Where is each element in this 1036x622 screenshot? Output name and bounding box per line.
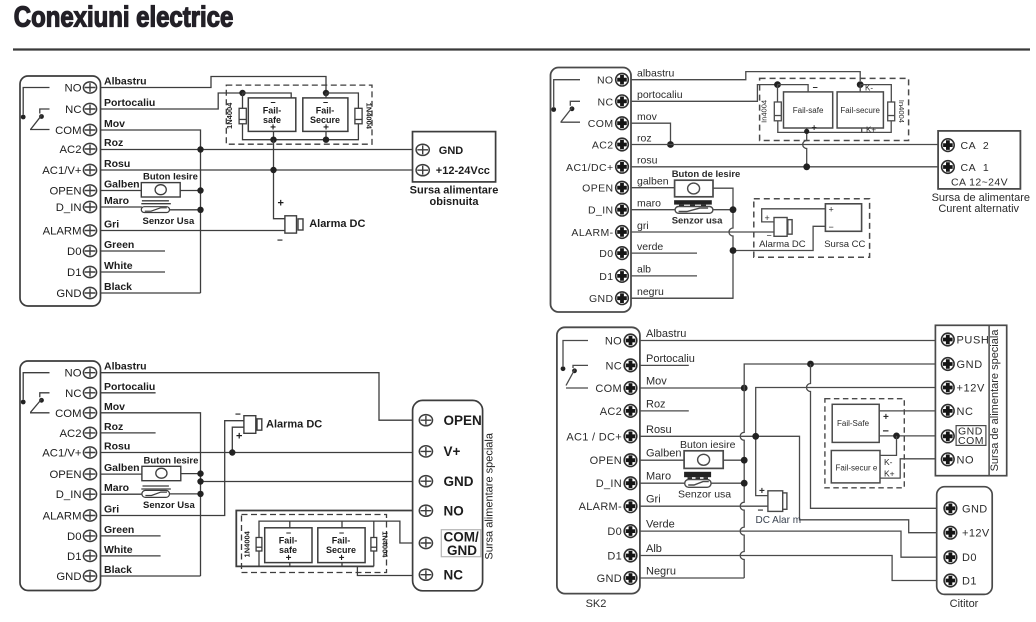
diode D5 In4004 (top-right) [774, 102, 781, 121]
relay contact symbol K2 (J2): NO pole [23, 373, 49, 400]
wire: lock rail to NC of PS2 [357, 566, 412, 575]
lock module enclosure (dashed, bottom-right) [825, 399, 904, 488]
svg-text:V+: V+ [444, 444, 461, 459]
alarm sounder BZ2 Alarma DC (bottom-left) [244, 416, 262, 434]
node: BZ2 plus to Rosu junction [229, 449, 235, 455]
title rule [13, 48, 1030, 50]
svg-text:Negru: Negru [646, 566, 676, 578]
svg-text:D1: D1 [962, 576, 977, 588]
svg-text:Senzor Usa: Senzor Usa [143, 500, 195, 511]
wire: SW1 output to COM rail [180, 190, 200, 192]
svg-text:Fail-secur e: Fail-secur e [836, 464, 878, 473]
svg-text:AC1 / DC+: AC1 / DC+ [566, 431, 622, 443]
svg-text:Rosu: Rosu [104, 441, 130, 453]
svg-text:Alarma DC: Alarma DC [266, 418, 322, 430]
terminal AC2 (J2) screw [83, 427, 96, 438]
svg-text:Senzor Usa: Senzor Usa [143, 216, 195, 227]
terminal CA 1 (PS3) screw [942, 161, 955, 174]
svg-text:Alarma DC: Alarma DC [759, 239, 806, 250]
terminal NO (PS4) screw [942, 453, 955, 466]
svg-text:AC1/V+: AC1/V+ [42, 165, 82, 177]
terminal GND (PS4) screw [942, 358, 955, 371]
terminal GND (J2) screw [83, 570, 96, 581]
node: mov-roz junction [667, 141, 674, 148]
wire Albastru: NO to Fail-Secure net [101, 77, 327, 91]
exit button SW1 (top-left) [141, 183, 180, 197]
terminal CA 2 (PS3) screw [942, 139, 955, 152]
svg-text:K+: K+ [866, 126, 876, 135]
svg-text:K+: K+ [884, 469, 895, 479]
terminal GND (SK2) screw [624, 572, 637, 585]
svg-text:verde: verde [637, 241, 663, 253]
relay contact symbol K2 (J2): armature to COM [30, 399, 50, 413]
wire verde: D0 stub [631, 252, 697, 254]
svg-text:K-: K- [884, 457, 893, 467]
wire Albastru: NO to OPEN of PS2 [101, 373, 413, 421]
terminal +12V (PS4) screw [942, 381, 955, 394]
svg-text:COM: COM [588, 118, 614, 130]
polarity labels FS3 [279, 528, 298, 564]
wire Mov: COM to GND rail [640, 387, 744, 389]
wire portocaliu: NC to Fail-safe net [631, 85, 775, 102]
wire: FS7 minus to GND/COM terminal [879, 435, 941, 437]
svg-text:GND: GND [447, 543, 477, 558]
wire: S3 output to GND rail [713, 209, 733, 211]
svg-text:GND: GND [957, 359, 983, 371]
node: GND rail to Cititor branch junction [807, 361, 814, 368]
svg-text:+12V: +12V [957, 383, 985, 395]
terminal OPEN (J3) screw [616, 181, 629, 194]
terminal D0 (J1) screw [83, 245, 96, 256]
svg-text:Fail-safe: Fail-safe [793, 106, 824, 115]
svg-text:Conexiuni electrice: Conexiuni electrice [14, 0, 234, 33]
svg-text:albastru: albastru [637, 68, 675, 80]
node B: Fail-Secure top junction [323, 90, 329, 96]
wire Galben: OPEN to exit button SW2 [101, 473, 142, 475]
svg-text:D_IN: D_IN [56, 489, 82, 501]
svg-text:+: + [812, 123, 817, 133]
terminal NO (PS2) screw [419, 505, 432, 516]
wire gri: ALARM- to Alarma DC minus [631, 231, 774, 233]
diode D4 1N4004 (bottom-left) [371, 538, 377, 552]
svg-text:Buton de Iesire: Buton de Iesire [672, 169, 741, 180]
svg-text:gri: gri [637, 220, 649, 232]
relay contact symbol K3 (J3): armature to COM [561, 108, 581, 123]
pin label GND/COM (PS4) boxed [956, 425, 986, 447]
terminal V+ (PS2) screw [419, 446, 432, 457]
terminal NC (SK2) screw [624, 359, 637, 372]
node: FS7 minus junction [893, 433, 900, 440]
polarity labels FS4 [326, 528, 356, 564]
wire Portocaliu: NC stub [640, 364, 689, 366]
exit button SW3 (top-right) [675, 180, 713, 197]
svg-text:−: − [235, 410, 241, 421]
svg-text:Buton Iesire: Buton Iesire [144, 456, 199, 467]
wire Negru: GND to GND rail [640, 577, 744, 579]
svg-text:Alarma DC: Alarma DC [309, 218, 365, 230]
terminal NC (J1) screw [83, 103, 96, 114]
terminal GND (J1) screw [83, 287, 96, 298]
svg-text:NO: NO [597, 75, 614, 87]
special power supply PS4 box (bottom-right) [935, 325, 1006, 475]
svg-text:negru: negru [637, 286, 664, 298]
svg-text:OPEN: OPEN [582, 183, 613, 195]
terminal D_IN (SK2) screw [624, 477, 637, 490]
wire: GND/COM to Fail-secure K- [880, 436, 897, 456]
svg-text:D1: D1 [67, 267, 81, 279]
node: SW2-COM junction [197, 470, 203, 476]
svg-text:Verde: Verde [646, 519, 675, 531]
pin label COM/GND (PS2) boxed [441, 530, 481, 558]
terminal D_IN (J3) screw [616, 203, 629, 216]
svg-text:D0: D0 [67, 246, 81, 258]
svg-text:COM: COM [958, 435, 984, 447]
lock module enclosure (dashed, top-right) [760, 78, 909, 140]
wire Mov: COM rail [101, 130, 201, 293]
relay contact symbol K1 (J1): armature to COM [30, 115, 50, 129]
wire: lock negative rail (bottom) [243, 124, 359, 140]
terminal AC1/V+ (J1) screw [83, 164, 96, 175]
relay contact symbol K1 (J1): NO pole [23, 88, 49, 115]
terminal OPEN (J1) screw [83, 185, 96, 196]
svg-text:PUSH: PUSH [957, 335, 990, 347]
svg-text:Portocaliu: Portocaliu [646, 353, 695, 365]
node: junction with Rosu wire [270, 167, 276, 173]
svg-text:1N4004: 1N4004 [243, 530, 252, 557]
door sensor S3 magnet bar [674, 200, 712, 207]
terminal D1 (SK2) screw [624, 549, 637, 562]
terminal NO (J3) screw [616, 73, 629, 86]
PS4 label divider [988, 325, 990, 475]
terminal COM (J1) screw [83, 124, 96, 135]
power supply PS1 box (top-left) [413, 132, 496, 182]
wire: S2 output to COM rail [170, 493, 201, 495]
svg-text:ALARM: ALARM [43, 511, 82, 523]
terminal D_IN (J1) screw [83, 201, 96, 212]
svg-text:Sursa CC: Sursa CC [824, 239, 865, 250]
svg-text:+: + [278, 198, 284, 210]
diode D2 1N4004 (top-left) [355, 108, 362, 124]
svg-text:AC1/DC+: AC1/DC+ [566, 162, 613, 174]
terminal AC1 / DC+ (SK2) screw [624, 430, 637, 443]
wire: BZ2 minus to Gri/ALARM [101, 421, 244, 516]
wire Gri: ALARM- to DC Alarm minus [640, 505, 768, 507]
svg-text:D1: D1 [599, 271, 613, 283]
Fail-Secure lock FS2 (top-left) [303, 98, 348, 131]
svg-text:OPEN: OPEN [49, 186, 81, 198]
terminal ALARM- (SK2) screw [624, 500, 637, 513]
svg-text:Sursa alimentare: Sursa alimentare [410, 185, 499, 197]
svg-text:OPEN: OPEN [444, 413, 482, 428]
node: Fail-Secure bottom junction [323, 137, 329, 143]
svg-text:Albastru: Albastru [104, 76, 147, 88]
AC power supply PS3 box (top-right) [938, 131, 1020, 189]
wire: node D to Fail-secure and diode D6 [860, 85, 891, 102]
diode D3 1N4004 (bottom-left) [256, 538, 262, 552]
node: Roz-COM junction [197, 146, 203, 152]
door sensor S1 reed switch (top-left) [141, 207, 169, 213]
terminal D_IN (J2) screw [83, 489, 96, 500]
svg-text:obisnuita: obisnuita [430, 196, 480, 208]
svg-text:CA 1: CA 1 [961, 162, 990, 174]
svg-text:roz: roz [637, 132, 652, 144]
svg-text:DC Alar m: DC Alar m [756, 515, 802, 526]
terminal D1 (Cititor) screw [944, 574, 957, 587]
Fail-safe lock FS5 (top-right) [784, 92, 833, 128]
svg-text:+: + [883, 412, 889, 423]
wire: node C to diode D5 and Fail-safe [778, 85, 809, 102]
terminal AC1/V+ (J2) screw [83, 447, 96, 458]
diode D6 In4004 (top-right) [888, 102, 895, 121]
svg-text:+: + [759, 486, 765, 497]
svg-text:1N4004: 1N4004 [381, 531, 390, 558]
svg-text:K-: K- [865, 84, 873, 93]
wire Maro: D_IN to door sensor S4 [640, 482, 685, 484]
exit button SW2 (bottom-left) [142, 466, 181, 480]
svg-text:SK2: SK2 [586, 598, 607, 610]
exit button SW4 (bottom-right) [684, 451, 723, 469]
wire: S4 output to GND rail [711, 482, 744, 484]
terminal OPEN (PS2) screw [419, 415, 432, 426]
terminal D1 (J3) screw [616, 270, 629, 283]
svg-text:COM: COM [595, 383, 622, 395]
alarm enclosure (dashed, top-right) [754, 199, 870, 258]
svg-text:Maro: Maro [104, 482, 129, 494]
svg-text:+12-24Vcc: +12-24Vcc [436, 165, 490, 177]
svg-text:D0: D0 [962, 552, 977, 564]
wire Black: GND to COM rail [101, 292, 201, 294]
node: K4 NO contact dot [561, 366, 566, 371]
svg-text:Portocaliu: Portocaliu [104, 381, 155, 393]
wire: SW4 output to GND rail [723, 459, 744, 461]
svg-text:+: + [236, 431, 242, 443]
svg-text:D1: D1 [607, 551, 622, 563]
wire Gri: ALARM to Alarma DC minus [101, 230, 285, 232]
wire Rosu: AC1/V+ to V+ of PS2 [101, 452, 413, 454]
svg-text:NO: NO [605, 336, 622, 348]
svg-text:AC2: AC2 [60, 428, 82, 440]
svg-text:+: + [339, 553, 345, 564]
svg-text:Green: Green [104, 524, 134, 536]
lock module enclosure (dashed, top-left) [226, 85, 372, 144]
node: SW4-GND rail junction [741, 457, 748, 464]
wire: lock bottom rail (top-right) [778, 121, 891, 133]
node: K3 NC contact dot [570, 106, 575, 111]
wire Galben: OPEN to exit button SW4 [640, 459, 684, 461]
wire: SW2 output to COM rail [181, 473, 201, 475]
wire Rosu: AC1/DC+ to Cititor +12V [640, 436, 942, 532]
svg-text:maro: maro [637, 198, 661, 210]
Fail-secure lock FS8 (bottom-right) [831, 451, 880, 483]
svg-text:Fail-: Fail- [332, 536, 351, 546]
svg-text:Cititor: Cititor [950, 598, 979, 610]
svg-text:Sursa de alimentare speciala: Sursa de alimentare speciala [989, 329, 1001, 472]
wire Green: D0 stub [101, 535, 161, 537]
wire negru: GND wire [631, 297, 733, 299]
svg-text:ALARM: ALARM [43, 226, 82, 238]
svg-text:Fail-: Fail- [263, 106, 282, 116]
terminal NC (PS4) screw [942, 405, 955, 418]
svg-text:−: − [277, 236, 283, 247]
svg-text:CA 2: CA 2 [961, 140, 990, 152]
svg-text:GND: GND [56, 571, 81, 583]
wire Albastru: NO to PUSH [640, 340, 942, 342]
wire albastru: NO to Fail-secure net [631, 72, 860, 81]
terminal PUSH (PS4) screw [942, 333, 955, 346]
access keypad terminal block SK2 (bottom-right) [557, 327, 640, 593]
svg-text:Buton iesire: Buton iesire [680, 439, 736, 451]
terminal COM (SK2) screw [624, 382, 637, 395]
wire Verde: D0 to Cititor D0 [640, 531, 942, 557]
terminal GND (J3) screw [616, 292, 629, 305]
node: S3-GND rail junction [730, 206, 737, 213]
wire +12V: terminal to Rosu and DC Alarm plus [756, 388, 942, 496]
svg-text:GND: GND [589, 293, 614, 305]
terminal OPEN (SK2) screw [624, 454, 637, 467]
wire Black: GND to COM rail [101, 575, 201, 577]
svg-text:In4004: In4004 [760, 100, 769, 123]
terminal GND (Cititor) screw [944, 502, 957, 515]
terminal AC2 (J1) screw [83, 143, 96, 154]
terminal D1 (J2) screw [83, 550, 96, 561]
terminal ALARM- (J3) screw [616, 226, 629, 239]
wire: BZ2 plus down to Rosu [232, 427, 244, 452]
svg-text:portocaliu: portocaliu [637, 89, 683, 101]
svg-text:Gri: Gri [104, 504, 119, 516]
svg-text:NC: NC [65, 388, 81, 400]
svg-text:Albastru: Albastru [104, 361, 147, 373]
svg-text:1N4004: 1N4004 [365, 103, 374, 130]
polarity labels Sursa CC [829, 205, 834, 233]
terminal NO (SK2) screw [624, 334, 637, 347]
terminal GND (PS2) screw [419, 476, 432, 487]
node: K2 NC contact dot [39, 398, 44, 403]
svg-text:+: + [765, 213, 770, 223]
terminal D0 (Cititor) screw [944, 551, 957, 564]
wire: COM rail to GND of PS2 [201, 481, 413, 483]
svg-text:1N4004: 1N4004 [225, 102, 234, 129]
node: K2 NO contact dot [21, 400, 26, 405]
diode D1 1N4004 (top-left) [239, 108, 246, 124]
Fail-Secure lock FS4 (bottom-left) [318, 528, 365, 563]
svg-text:OPEN: OPEN [590, 455, 622, 467]
svg-text:+: + [829, 205, 834, 215]
terminal D1 (J1) screw [83, 266, 96, 277]
wire Rosu: AC1/V+ to supply +12-24Vcc [101, 169, 417, 171]
node: Mov-GND rail junction [741, 385, 748, 392]
wire Roz: AC2 stub [101, 432, 156, 434]
lock module enclosure (dashed, bottom-left) [242, 515, 387, 573]
svg-text:Gri: Gri [104, 219, 119, 231]
wire: Sursa CC plus to Alarma DC [762, 209, 826, 222]
svg-text:OPEN: OPEN [49, 469, 81, 481]
node C: Fail-safe top junction [774, 81, 781, 88]
alarm sounder BZ1 Alarma DC (top-left) [285, 216, 303, 233]
svg-text:Galben: Galben [104, 179, 140, 191]
wire Alb: D1 to Cititor D1 [640, 556, 942, 581]
svg-text:CA 12~24V: CA 12~24V [951, 176, 1008, 188]
svg-text:Mov: Mov [104, 118, 125, 130]
Fail-Safe lock FS7 (bottom-right) [832, 404, 879, 442]
svg-text:GND: GND [962, 503, 988, 515]
svg-text:D0: D0 [607, 526, 622, 538]
svg-text:Mov: Mov [104, 401, 125, 413]
svg-text:Albastru: Albastru [646, 328, 686, 340]
svg-text:Gri: Gri [646, 494, 661, 506]
svg-text:Buton Iesire: Buton Iesire [143, 172, 198, 183]
wire Maro: D_IN to door sensor S2 [101, 486, 171, 494]
svg-text:+12V: +12V [962, 528, 990, 540]
controller terminal block J2 (bottom-left) [20, 361, 101, 591]
svg-text:GND: GND [439, 145, 464, 157]
node: SW1-COM junction [197, 187, 203, 193]
svg-text:AC2: AC2 [60, 144, 82, 156]
wire: FS7 plus to NC terminal [879, 410, 941, 412]
svg-text:ALARM-: ALARM- [579, 501, 622, 513]
node: S2-COM junction [197, 491, 203, 497]
wire: NO of PS2 to lock negative rail [236, 511, 412, 567]
terminal D0 (J3) screw [616, 247, 629, 260]
node: +12V to Rosu junction [752, 433, 759, 440]
terminal GND (PS1) screw [416, 144, 429, 155]
svg-text:White: White [104, 544, 133, 556]
terminal NC (PS2) screw [419, 569, 432, 580]
svg-text:Maro: Maro [646, 471, 671, 483]
svg-text:Green: Green [104, 239, 134, 251]
wire alb: D1 stub [631, 275, 697, 277]
node: FS5 bottom leg junction [804, 129, 809, 134]
wire: lock rail to COM/GND of PS2 [374, 521, 413, 543]
svg-text:Maro: Maro [104, 195, 129, 207]
wire maro: D_IN to door sensor S3 [631, 209, 675, 211]
wire: lock positive rail (top) [259, 521, 374, 537]
svg-text:NC: NC [65, 104, 81, 116]
svg-text:NC: NC [598, 96, 614, 108]
svg-text:Rosu: Rosu [646, 424, 672, 436]
svg-text:NC: NC [606, 360, 623, 372]
relay contact symbol K3 (J3): NO pole [554, 80, 580, 107]
node: K1 NC contact dot [39, 114, 44, 119]
svg-text:Fail-secure: Fail-secure [840, 106, 880, 115]
relay contact symbol K4 (SK2): NO pole [563, 341, 588, 367]
Fail-safe lock FS3 (bottom-left) [265, 528, 312, 563]
terminal AC2 (SK2) screw [624, 405, 637, 418]
card reader Cititor box (bottom-right) [937, 487, 993, 595]
wire: GND branch to Cititor GND with hop over +12V [807, 364, 942, 508]
svg-text:Senzor usa: Senzor usa [672, 215, 723, 226]
door sensor S3 reed switch (top-right) [675, 207, 713, 214]
wire: S1 output to COM rail [170, 209, 201, 211]
terminal COM (J3) screw [616, 117, 629, 130]
svg-text:NO: NO [444, 503, 464, 518]
svg-text:galben: galben [637, 176, 669, 188]
terminal COM (J2) screw [83, 407, 96, 418]
terminal ALARM (J2) screw [83, 510, 96, 521]
svg-text:AC1/V+: AC1/V+ [42, 448, 82, 460]
svg-text:Rosu: Rosu [104, 158, 130, 170]
terminal NC (J2) screw [83, 387, 96, 398]
svg-text:D0: D0 [599, 248, 613, 260]
svg-text:In4004: In4004 [897, 100, 906, 123]
svg-text:Black: Black [104, 281, 132, 293]
node: S1-COM junction [197, 207, 203, 213]
terminal NC (J3) screw [616, 95, 629, 108]
polarity labels FS2 [310, 98, 340, 134]
wire Maro: D_IN to door sensor S1 [101, 201, 171, 207]
Fail-safe lock FS1 (top-left) [248, 98, 295, 131]
wire: Sursa CC minus to GND rail [733, 226, 825, 250]
node: Fail-safe bottom junction [270, 137, 276, 143]
